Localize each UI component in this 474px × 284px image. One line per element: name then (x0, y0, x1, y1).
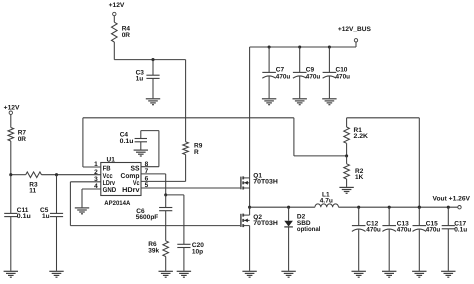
pin 2 label (94, 169, 112, 180)
pin 5 label (122, 182, 149, 194)
wire (11, 141, 26, 175)
node +12V_BUS (338, 26, 372, 42)
junction (418, 206, 421, 209)
pin 4 label (94, 183, 116, 194)
capacitor C10 (323, 47, 350, 98)
pin 6 label (133, 176, 149, 187)
svg-text:R: R (194, 149, 199, 156)
capacitor C12 (352, 207, 381, 271)
wire (166, 194, 184, 196)
transistor Q2 (241, 214, 278, 228)
junction (328, 45, 331, 48)
ground (177, 271, 191, 277)
svg-text:470u: 470u (366, 227, 381, 234)
svg-text:0.1u: 0.1u (454, 227, 467, 234)
svg-text:LDrv: LDrv (103, 180, 115, 187)
wire pin8 SS (141, 131, 159, 167)
svg-text:1u: 1u (136, 76, 144, 83)
ground (262, 99, 276, 105)
svg-text:70T03H: 70T03H (253, 179, 278, 186)
node FB divider (345, 154, 348, 157)
svg-text:1u: 1u (42, 213, 50, 220)
resistor R1 (344, 118, 369, 156)
junction (55, 173, 58, 176)
svg-text:+12V: +12V (4, 105, 20, 112)
capacitor C17 (442, 207, 468, 271)
op-amp U1 AP2014A (101, 156, 141, 207)
svg-text:+12V_BUS: +12V_BUS (338, 26, 372, 33)
pin 8 label (131, 161, 149, 173)
pin 3 label (94, 176, 115, 187)
wire FB rail (83, 118, 347, 167)
svg-text:1K: 1K (355, 174, 364, 181)
wire pin5 HDrv (141, 187, 240, 189)
wire pin3 LDrv (70, 182, 240, 226)
wire (10, 114, 12, 127)
wire output (339, 206, 458, 208)
wire (250, 42, 356, 47)
wire pin4 GND (82, 189, 101, 207)
ground (159, 271, 173, 277)
ground (382, 271, 396, 277)
ground (134, 150, 148, 156)
svg-text:470u: 470u (397, 227, 412, 234)
diode D2 (284, 207, 320, 271)
wire (114, 42, 185, 60)
svg-text:5600pF: 5600pF (136, 214, 159, 221)
svg-text:0R: 0R (18, 136, 27, 143)
svg-text:11: 11 (29, 188, 36, 195)
capacitor C7 (262, 47, 290, 98)
capacitor C20 (177, 195, 204, 271)
svg-text:2: 2 (94, 169, 98, 176)
ground (146, 99, 160, 105)
svg-text:FB: FB (103, 166, 111, 173)
junction (164, 193, 167, 196)
wire (185, 60, 187, 142)
ground (412, 271, 426, 277)
wire (113, 16, 115, 23)
ground (49, 271, 63, 277)
svg-text:2.2K: 2.2K (354, 133, 369, 140)
svg-text:+12V: +12V (109, 2, 125, 9)
svg-text:4.7u: 4.7u (320, 197, 333, 204)
wire phase (250, 206, 315, 208)
node +12V (top) (109, 2, 125, 16)
junction (388, 206, 391, 209)
ground (281, 271, 295, 277)
ground (339, 187, 353, 193)
capacitor C15 (413, 207, 441, 271)
svg-text:470u: 470u (336, 74, 351, 81)
wire (347, 118, 420, 207)
resistor R4 (112, 22, 131, 42)
junction (298, 45, 301, 48)
capacitor C4 (120, 131, 147, 150)
node phase (248, 206, 251, 209)
capacitor C6 (136, 195, 173, 241)
svg-text:U1: U1 (107, 156, 116, 163)
capacitor C13 (382, 207, 411, 271)
svg-text:SS: SS (131, 166, 140, 173)
svg-text:470u: 470u (426, 227, 441, 234)
node VCC junction (151, 58, 154, 61)
inductor L1 (315, 191, 339, 207)
svg-text:optional: optional (297, 226, 321, 233)
ground (75, 208, 89, 214)
resistor R2 (344, 156, 364, 187)
wire (165, 257, 167, 271)
svg-text:10p: 10p (192, 248, 203, 255)
junction (287, 206, 290, 209)
capacitor C5 (40, 175, 63, 271)
svg-text:470u: 470u (276, 74, 291, 81)
svg-text:0R: 0R (122, 32, 131, 39)
resistor R7 (8, 128, 26, 143)
wire bus to Q1 (249, 47, 251, 178)
svg-text:39k: 39k (148, 248, 159, 255)
svg-text:AP2014A: AP2014A (104, 200, 130, 207)
transistor Q1 (241, 172, 278, 189)
junction (447, 206, 450, 209)
svg-text:470u: 470u (306, 74, 321, 81)
capacitor C9 (293, 47, 320, 98)
node Vout (433, 196, 471, 209)
svg-text:Vout +1.26V: Vout +1.26V (433, 196, 471, 203)
resistor R3 (26, 172, 42, 195)
svg-text:C9: C9 (306, 67, 315, 74)
svg-text:GND: GND (103, 187, 117, 194)
svg-text:C7: C7 (276, 67, 285, 74)
wire pin1 FB (83, 166, 101, 168)
ground (293, 99, 307, 105)
ground (352, 271, 366, 277)
resistor R6 (148, 241, 168, 257)
wire pin7 Comp (141, 174, 166, 195)
pin 1 label (94, 161, 110, 172)
svg-text:C10: C10 (336, 67, 348, 74)
capacitor C3 (136, 60, 160, 99)
wire (249, 207, 251, 271)
wire (141, 155, 186, 182)
svg-text:HDrv: HDrv (122, 187, 140, 194)
wire (249, 178, 251, 207)
junction (268, 45, 271, 48)
ground (4, 271, 18, 277)
junction (418, 206, 421, 209)
junction (9, 173, 12, 176)
ground (441, 271, 455, 277)
svg-text:0.1u: 0.1u (17, 213, 31, 220)
svg-text:Vc: Vc (133, 180, 140, 187)
svg-text:70T03H: 70T03H (253, 220, 278, 227)
node +12V (left) (4, 105, 20, 115)
ground (322, 99, 336, 105)
junction (357, 206, 360, 209)
ground (242, 271, 256, 277)
capacitor C11 (4, 175, 31, 271)
pin 7 label (121, 168, 149, 180)
resistor R9 (183, 142, 203, 156)
svg-text:0.1u: 0.1u (120, 138, 134, 145)
wire (42, 174, 101, 176)
